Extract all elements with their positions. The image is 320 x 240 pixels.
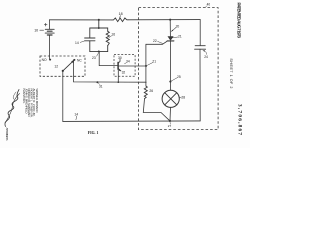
big dashed box 40	[139, 8, 219, 130]
label 12	[54, 64, 58, 68]
svg-text:PATENTED AUG 7 1973: PATENTED AUG 7 1973	[236, 3, 241, 39]
label 21 cathode	[178, 35, 182, 39]
node top junction	[98, 19, 100, 21]
label 22 gate	[153, 39, 157, 43]
wire NC lead	[74, 60, 147, 82]
svg-text:27: 27	[168, 124, 172, 128]
cathode wire	[169, 41, 171, 90]
anode wire	[169, 20, 171, 37]
label 21	[152, 59, 156, 63]
svg-text:16: 16	[111, 32, 115, 36]
contact NO	[49, 59, 51, 61]
sheet label (rotated)	[229, 58, 233, 88]
svg-text:40: 40	[207, 3, 211, 7]
label 18	[119, 12, 123, 16]
svg-text:ATTORNEYS: ATTORNEYS	[5, 128, 9, 141]
svg-text:34: 34	[126, 59, 130, 63]
node 31	[96, 81, 98, 83]
svg-text:3,706,867: 3,706,867	[237, 104, 243, 135]
resistor 16	[106, 31, 109, 45]
patent header text (rotated)	[236, 3, 241, 39]
svg-text:32: 32	[122, 71, 126, 75]
junction emitter/NC wire	[117, 81, 119, 83]
node 27	[169, 120, 171, 122]
transistor right lead to gate node	[118, 65, 146, 67]
emitter lead down	[117, 69, 119, 82]
node 25	[169, 81, 171, 83]
node 21 wire (gate node vertical)	[145, 44, 147, 86]
bottom rail	[63, 120, 200, 123]
svg-text:NC: NC	[77, 58, 82, 62]
label NC	[77, 58, 82, 62]
label 20	[176, 24, 180, 28]
capacitor 14	[85, 37, 95, 39]
battery 10	[49, 20, 51, 29]
svg-text:25: 25	[177, 75, 181, 79]
switch arm	[63, 62, 73, 71]
RC loop wires	[90, 28, 108, 38]
signature scribble	[5, 90, 19, 127]
svg-text:14: 14	[75, 41, 79, 45]
transistor box (dashed)	[114, 55, 135, 77]
svg-text:20: 20	[176, 24, 180, 28]
label 32	[122, 71, 126, 75]
inventor names block (rotated)	[22, 89, 39, 118]
svg-text:21: 21	[178, 35, 182, 39]
SCR 20	[169, 19, 171, 21]
svg-text:31: 31	[99, 84, 103, 88]
lamp bottom lead	[169, 107, 172, 121]
battery plus sign	[44, 23, 47, 26]
svg-text:FIG. 1: FIG. 1	[88, 131, 99, 135]
patent number (rotated)	[237, 104, 243, 135]
svg-text:26: 26	[149, 89, 153, 93]
svg-text:28: 28	[181, 95, 185, 99]
wire stub to RC loop	[98, 20, 100, 28]
label 16	[111, 32, 115, 36]
resistor 18	[112, 18, 128, 22]
leader 10	[40, 29, 44, 31]
svg-text:22: 22	[153, 39, 157, 43]
svg-text:24: 24	[204, 55, 208, 59]
wire switch pole to rail	[62, 71, 64, 122]
label 34	[126, 59, 130, 63]
svg-text:INVENTORS.: INVENTORS.	[22, 89, 26, 104]
label 14 rail	[74, 112, 78, 116]
transistor 30	[117, 62, 119, 69]
label 14	[75, 41, 79, 45]
switch box 12 (dashed enclosure)	[40, 56, 85, 76]
svg-text:14: 14	[74, 112, 78, 116]
label 30	[118, 56, 122, 60]
svg-text:21: 21	[152, 59, 156, 63]
SCR triangle	[168, 36, 174, 41]
label NO	[42, 58, 47, 62]
gate wire	[146, 41, 168, 44]
lamp 28	[162, 90, 179, 107]
svg-text:NO: NO	[42, 58, 47, 62]
resistor 26 bottom lead	[143, 99, 170, 121]
label 28	[181, 95, 185, 99]
label 10	[34, 29, 38, 33]
wire node 23 to transistor base	[99, 52, 118, 66]
cathode bar	[167, 40, 174, 42]
resistor 26	[144, 86, 147, 99]
switch pivot	[62, 70, 64, 72]
leader 18	[119, 16, 122, 18]
svg-text:10: 10	[34, 29, 38, 33]
svg-text:23: 23	[92, 56, 96, 60]
wire top bus	[50, 19, 113, 21]
attorneys label (rotated)	[5, 128, 9, 141]
contact NC	[73, 59, 75, 61]
figure label FIG. 1	[88, 131, 99, 135]
svg-text:SHEET 1 OF 2: SHEET 1 OF 2	[229, 58, 233, 88]
label 40	[207, 3, 211, 7]
node 23	[98, 51, 100, 53]
capacitor 24	[199, 20, 201, 46]
svg-text:12: 12	[54, 64, 58, 68]
svg-text:30: 30	[118, 56, 122, 60]
